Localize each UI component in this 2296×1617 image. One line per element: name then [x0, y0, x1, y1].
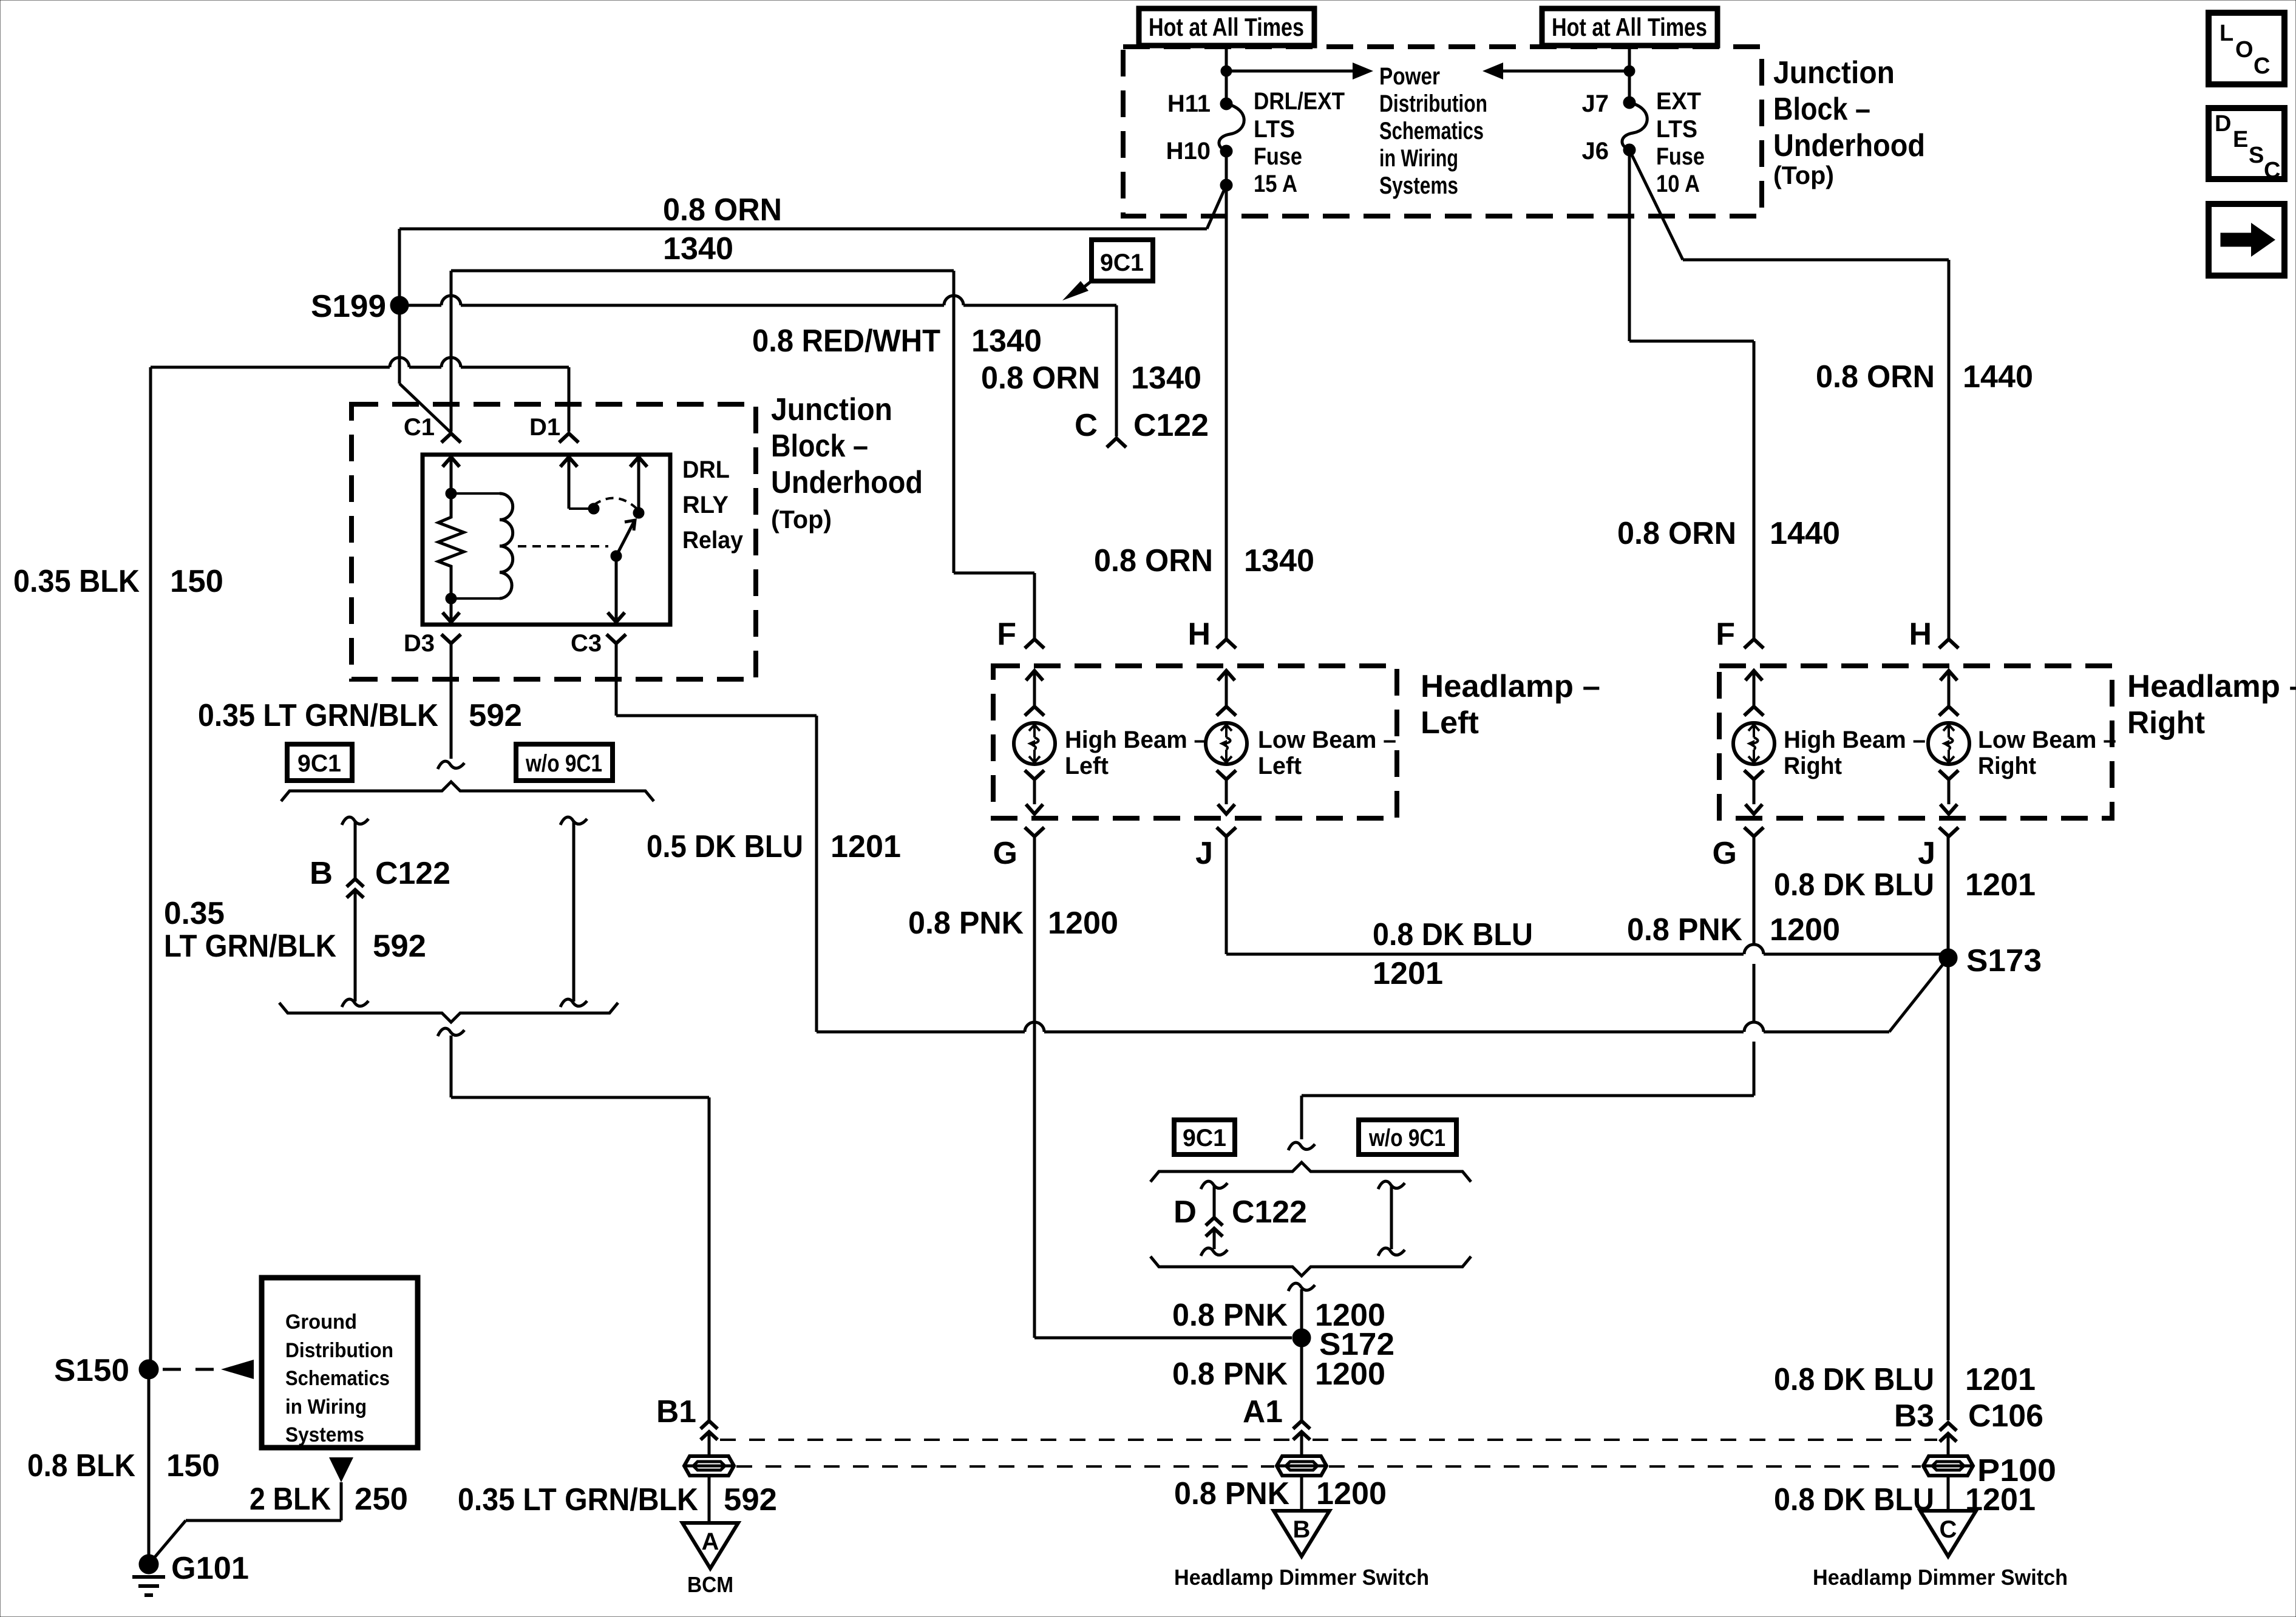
label: 0.8 DK BLU 1201 (B3) [1774, 1362, 2036, 1397]
svg-text:Systems: Systems [1379, 172, 1458, 199]
svg-text:Right: Right [1784, 753, 1842, 779]
svg-text:D1: D1 [529, 414, 560, 441]
label: 592 (D3) [469, 698, 522, 733]
headlamp-right dashed outline [1719, 666, 2112, 818]
pin label H11 [1167, 90, 1211, 117]
svg-text:0.35 BLK: 0.35 BLK [13, 564, 140, 599]
bulb outlet chevron J-left [1217, 770, 1236, 804]
svg-text:0.8 ORN: 0.8 ORN [981, 361, 1100, 396]
connector arrow into H-right [1940, 671, 1957, 705]
connector chevron above H-right [1939, 639, 1958, 648]
connector chevron above F-left [1025, 639, 1044, 648]
relay coil branch wires [451, 493, 500, 598]
variant branch left bracket with connector C122 D [1201, 1181, 1228, 1256]
bulb socket chevron H-right [1939, 707, 1958, 716]
svg-text:C122: C122 [1133, 408, 1209, 443]
svg-text:LTS: LTS [1656, 116, 1697, 143]
svg-text:B: B [1293, 1516, 1311, 1543]
wire: G-left down to S172 junction [1034, 836, 1292, 1338]
connector C122 pin C half-connector chevron [1107, 438, 1126, 447]
wire: left ground drop (0.35 BLK 150) [149, 367, 152, 1369]
label: 0.8 RED/WHT [752, 324, 940, 359]
pin label B1 [656, 1394, 696, 1429]
wire: C3 run to S173 with humps and diagonal [817, 958, 1948, 1032]
connector chevron below C3 [606, 634, 626, 643]
pass-through symbol at A1 [1277, 1456, 1326, 1476]
relay switch arm with arrowhead [616, 520, 635, 556]
label: C122 (top) [1133, 408, 1209, 443]
svg-text:H11: H11 [1167, 90, 1211, 117]
pin H10 dot [1220, 145, 1232, 157]
wire: J-left to S173 (0.8 DK BLU 1201) [1226, 836, 1948, 954]
node: arrow branch dot right [1624, 66, 1635, 76]
relay DRL RLY box [423, 455, 670, 625]
svg-text:592: 592 [469, 698, 522, 733]
reference arrow to Power Distribution text (left-pointing) [1483, 63, 1629, 80]
svg-text:C122: C122 [375, 856, 450, 891]
svg-text:Right: Right [1978, 753, 2036, 779]
svg-text:Hot at All Times: Hot at All Times [1552, 13, 1707, 41]
svg-text:Fuse: Fuse [1254, 143, 1302, 170]
svg-text:Headlamp Dimmer Switch: Headlamp Dimmer Switch [1813, 1565, 2068, 1590]
relay pin arrow C1 (coil+) [443, 457, 460, 493]
relay coil top node dot [446, 488, 457, 499]
label: G101 [171, 1551, 249, 1586]
wire: 0.8 ORN 1340 horizontal bus [399, 229, 1207, 305]
svg-text:H: H [1909, 617, 1932, 652]
connector chevron at C1 [441, 433, 461, 442]
svg-text:S: S [2249, 143, 2264, 168]
lamp High Beam - Right [1733, 723, 1775, 764]
svg-text:C1: C1 [404, 414, 435, 441]
connector arrow into F-right [1745, 671, 1762, 705]
pin label G (right) [1713, 836, 1737, 871]
splice S172 dot [1292, 1329, 1311, 1347]
callout box 9C1 with arrow [1062, 240, 1153, 300]
svg-text:C: C [2254, 53, 2270, 79]
callout box 9C1 (left group) [287, 744, 352, 781]
label: EXT LTS Fuse 10 A [1656, 88, 1705, 197]
label: 0.8 DK BLU 1201 (J-right) [1774, 867, 2036, 903]
connector arrow out J-right [1940, 804, 1957, 814]
splice S173 dot [1939, 949, 1957, 967]
label: BCM [687, 1572, 733, 1597]
connector chevron below G-left [1025, 827, 1044, 836]
connector chevron below J-left [1217, 827, 1236, 836]
bulb outlet chevron G-left [1025, 770, 1044, 804]
svg-text:0.8 PNK: 0.8 PNK [908, 906, 1024, 941]
wire: J6 down then right to high-beam-right feed [1629, 150, 1754, 638]
label: 0.8 PNK 1200 (above S172) [1172, 1298, 1385, 1333]
pin label J7 [1582, 90, 1609, 117]
svg-text:Left: Left [1258, 753, 1302, 779]
junction block underhood (relay) dashed outline [352, 404, 756, 679]
svg-text:C122: C122 [1232, 1195, 1307, 1230]
svg-text:592: 592 [724, 1482, 777, 1517]
label: Headlamp Dimmer Switch (right) [1813, 1565, 2068, 1590]
destination triangle C (dimmer switch) [1920, 1511, 1976, 1556]
variant branch left bracket with connector C122 B [342, 817, 369, 1007]
connector chevron above H-left [1217, 639, 1236, 648]
svg-text:B: B [310, 856, 333, 891]
svg-text:1200: 1200 [1048, 906, 1118, 941]
curl below lower brace (left group) [438, 1028, 464, 1036]
svg-text:J7: J7 [1582, 90, 1609, 117]
label: 0.8 ORN 1340 (C122 drop) [981, 361, 1201, 396]
svg-text:H: H [1187, 617, 1211, 652]
label: 0.35 LT GRN/BLK (D3) [198, 698, 438, 733]
connector B3 double chevron [1940, 1423, 1957, 1442]
svg-text:RLY: RLY [682, 492, 729, 518]
pin label J6 [1582, 138, 1609, 164]
dashed harness separator line 1 [720, 1439, 1937, 1441]
svg-text:Right: Right [2127, 705, 2205, 741]
pin label B3 [1894, 1398, 1934, 1434]
label: 0.8 BLK [27, 1448, 135, 1483]
pin label H (left) [1187, 617, 1211, 652]
label: 0.35 BLK [13, 564, 140, 599]
relay pin arrow B+ contact [630, 457, 647, 513]
svg-text:1440: 1440 [1770, 516, 1840, 551]
svg-text:Fuse: Fuse [1656, 143, 1705, 170]
svg-text:1200: 1200 [1770, 912, 1840, 947]
svg-text:0.8 DK BLU: 0.8 DK BLU [1373, 917, 1533, 952]
svg-text:G: G [1713, 836, 1737, 871]
svg-text:LT GRN/BLK: LT GRN/BLK [164, 929, 336, 964]
relay pin arrow D1 (switch in) [560, 457, 577, 509]
label: Headlamp - Right [2127, 669, 2296, 741]
variant brace upper (middle group) [1150, 1162, 1471, 1182]
pin label H10 [1166, 138, 1211, 164]
svg-text:in Wiring: in Wiring [285, 1395, 367, 1419]
wire: ground-side bus to relay D1 with humps [151, 358, 569, 432]
connector arrow out J-left [1218, 804, 1235, 814]
svg-text:G101: G101 [171, 1551, 249, 1586]
wire: S199 down to C1 diagonal [399, 305, 451, 433]
wire: fuse output down to headlamp-left H [1225, 185, 1228, 638]
svg-text:BCM: BCM [687, 1572, 733, 1597]
svg-text:1340: 1340 [1244, 543, 1314, 578]
svg-text:0.35 LT GRN/BLK: 0.35 LT GRN/BLK [458, 1482, 698, 1517]
label: 0.8 ORN 1440 (high beam right) [1617, 516, 1840, 551]
label: 2 BLK [250, 1482, 331, 1517]
svg-text:H10: H10 [1166, 138, 1211, 164]
wire: A1 to dimmer switch B [1300, 1432, 1303, 1511]
svg-text:High Beam –: High Beam – [1784, 727, 1926, 753]
svg-text:C: C [1075, 408, 1098, 443]
svg-text:0.8 DK BLU: 0.8 DK BLU [1774, 1482, 1934, 1517]
headlamp-left dashed outline [993, 666, 1397, 818]
variant branch right bracket (w/o 9C1) [560, 817, 587, 1007]
junction block underhood (top) dashed outline [1123, 47, 1762, 216]
connector arrow into H-left [1218, 671, 1235, 705]
label: 0.8 ORN 1440 (low beam right) [1816, 359, 2033, 395]
svg-text:1200: 1200 [1316, 1476, 1387, 1511]
svg-text:0.8 RED/WHT: 0.8 RED/WHT [752, 324, 940, 359]
curl on G-right riser end [1288, 1142, 1315, 1150]
svg-text:0.5 DK BLU: 0.5 DK BLU [647, 829, 803, 864]
svg-text:EXT: EXT [1656, 88, 1701, 115]
label: S173 [1966, 943, 2042, 978]
connector arrow out G-left [1026, 804, 1043, 814]
svg-text:C3: C3 [571, 630, 602, 657]
label: Headlamp Dimmer Switch (left) [1174, 1565, 1429, 1590]
connector chevron below J-right [1939, 827, 1958, 836]
svg-text:9C1: 9C1 [1100, 249, 1144, 276]
bulb socket chevron F-left [1025, 707, 1044, 716]
svg-text:Junction: Junction [1773, 55, 1895, 90]
svg-text:0.8 ORN: 0.8 ORN [1617, 516, 1736, 551]
label: Low Beam - Right [1978, 727, 2116, 779]
svg-text:Headlamp –: Headlamp – [2127, 669, 2296, 704]
label: 150 (lower) [166, 1448, 220, 1483]
wire: B1 to BCM triangle [708, 1432, 711, 1523]
svg-text:9C1: 9C1 [297, 750, 341, 777]
svg-text:Low Beam –: Low Beam – [1258, 727, 1396, 753]
label: 0.5 DK BLU [647, 829, 803, 864]
svg-text:250: 250 [355, 1482, 408, 1517]
pin J7 dot [1623, 97, 1635, 109]
pass-through symbol at B1 [684, 1456, 734, 1476]
relay coil windings [500, 493, 513, 598]
LOC reference icon box [2209, 13, 2284, 84]
wire: fuse output segment [1225, 151, 1228, 185]
variant brace lower (left group) [279, 1003, 618, 1022]
bulb outlet chevron G-right [1744, 770, 1764, 804]
svg-text:J: J [1195, 836, 1213, 871]
callout box w/o 9C1 (middle group) [1359, 1120, 1456, 1154]
pin label F (right) [1716, 617, 1735, 652]
pin label D1 [529, 414, 560, 441]
label: 0.8 PNK 1200 (A1) [1174, 1476, 1387, 1511]
callout box w/o 9C1 (left group) [516, 744, 613, 781]
wire: S150 to G101 [148, 1369, 151, 1561]
label: 250 [355, 1482, 408, 1517]
svg-text:150: 150 [170, 564, 223, 599]
svg-text:w/o 9C1: w/o 9C1 [525, 750, 602, 777]
label: 0.8 PNK 1200 (G-right) [1627, 912, 1840, 947]
svg-text:150: 150 [166, 1448, 220, 1483]
svg-text:in Wiring: in Wiring [1379, 145, 1458, 172]
label: C106 [1968, 1398, 2043, 1434]
connector chevron below G-right [1744, 827, 1764, 836]
next-page arrow icon box [2209, 204, 2284, 276]
svg-text:D: D [2215, 111, 2231, 137]
label: 0.8 ORN (bus) [663, 192, 782, 228]
label: Power Distribution Schematics in Wiring Systems [1379, 63, 1487, 199]
svg-text:F: F [997, 617, 1016, 652]
svg-text:0.8 ORN: 0.8 ORN [1094, 543, 1213, 578]
power label box: Hot at All Times (left) [1139, 8, 1314, 46]
svg-text:D: D [1173, 1195, 1197, 1230]
svg-text:Low Beam –: Low Beam – [1978, 727, 2116, 753]
label: S199 [311, 289, 386, 324]
svg-text:Relay: Relay [682, 527, 744, 554]
node: arrow branch dot left [1221, 66, 1232, 76]
connector A1 double chevron [1293, 1421, 1310, 1440]
svg-text:10 A: 10 A [1656, 171, 1700, 197]
wire: hot1 feed into junction block [1225, 43, 1228, 104]
ground symbol G101 [132, 1577, 165, 1595]
svg-text:Headlamp –: Headlamp – [1421, 669, 1600, 704]
svg-text:F: F [1716, 617, 1735, 652]
destination triangle A (BCM) [682, 1523, 738, 1568]
pin label C1 [404, 414, 435, 441]
svg-text:9C1: 9C1 [1183, 1125, 1226, 1151]
svg-text:0.8 DK BLU: 0.8 DK BLU [1774, 1362, 1934, 1397]
svg-text:15 A: 15 A [1254, 171, 1297, 197]
connector arrow into F-left [1026, 671, 1043, 705]
splice S199 dot [390, 296, 409, 314]
dashed reference line from S150 [163, 1360, 254, 1379]
label: S172 [1319, 1327, 1394, 1362]
svg-text:Hot at All Times: Hot at All Times [1149, 13, 1304, 41]
bulb outlet chevron J-right [1939, 770, 1958, 804]
pin label G (left) [993, 836, 1017, 871]
pin label J (left) [1195, 836, 1213, 871]
bulb socket chevron F-right [1744, 707, 1764, 716]
svg-text:0.35: 0.35 [164, 896, 225, 931]
label: 0.35 LT GRN/BLK (BCM) [458, 1482, 698, 1517]
svg-text:(Top): (Top) [1773, 161, 1834, 189]
relay switch contact dot (common upper) [633, 507, 644, 518]
svg-text:1201: 1201 [830, 829, 901, 864]
variant brace lower (middle group) [1150, 1256, 1471, 1276]
label: 0.8 ORN 1340 (low beam left feed) [1094, 543, 1314, 578]
svg-text:Systems: Systems [285, 1423, 364, 1446]
ground G101 dot [139, 1554, 158, 1574]
connector B1 double chevron [701, 1421, 718, 1440]
curl on D3 wire end [438, 761, 464, 769]
lamp Low Beam - Right [1928, 723, 1969, 764]
svg-text:O: O [2235, 37, 2254, 63]
label: C122 (left group) [375, 856, 450, 891]
label: High Beam - Right [1784, 727, 1926, 779]
label: 0.8 DK BLU 1201 (C) [1774, 1482, 2036, 1517]
pin J6 dot [1623, 144, 1635, 156]
label: D (pin of C122) [1173, 1195, 1197, 1230]
connector chevron above F-right [1744, 639, 1764, 648]
variant branch right bracket (middle) [1378, 1181, 1405, 1256]
relay switch contact dot (NO) [588, 503, 599, 514]
wire: S172 down to A1 [1300, 1338, 1303, 1420]
svg-text:0.8 PNK: 0.8 PNK [1627, 912, 1742, 947]
wire: B3 to dimmer switch C [1947, 1434, 1950, 1511]
connector chevron at D1 [559, 433, 579, 442]
wire: G-right down and across to D-C122 riser [1302, 836, 1754, 1139]
label: 0.8 PNK 1200 (below S172) [1172, 1357, 1385, 1392]
relay pin arrow C3 (switch out) [608, 556, 625, 622]
power label box: Hot at All Times (right) [1542, 8, 1717, 46]
relay pin arrow D3 (coil-) [443, 598, 460, 622]
node dot below H10 [1220, 179, 1232, 191]
svg-text:S150: S150 [54, 1353, 129, 1388]
reference triangle below box [329, 1457, 353, 1482]
svg-text:A: A [702, 1528, 719, 1555]
connector chevron below D3 [441, 634, 461, 643]
wire: hot2 feed into junction block [1628, 43, 1631, 103]
svg-text:Ground: Ground [285, 1310, 357, 1334]
pin label J (right) [1918, 836, 1935, 871]
resistor inside relay [438, 493, 464, 598]
svg-text:LTS: LTS [1254, 116, 1295, 143]
svg-text:L: L [2220, 21, 2233, 46]
svg-text:S173: S173 [1966, 943, 2042, 978]
svg-text:Left: Left [1065, 753, 1109, 779]
label: Headlamp - Left [1421, 669, 1600, 741]
DESC reference icon box [2209, 108, 2284, 183]
svg-text:Schematics: Schematics [1379, 118, 1484, 144]
svg-text:J6: J6 [1582, 138, 1609, 164]
wire: D3 drop to brace group [450, 643, 453, 759]
lamp Low Beam - Left [1206, 723, 1247, 764]
svg-text:0.8 BLK: 0.8 BLK [27, 1448, 135, 1483]
svg-text:1200: 1200 [1315, 1357, 1385, 1392]
svg-text:B1: B1 [656, 1394, 696, 1429]
lamp High Beam - Left [1014, 723, 1055, 764]
svg-text:High Beam –: High Beam – [1065, 727, 1207, 753]
svg-text:0.8 ORN: 0.8 ORN [663, 192, 782, 228]
svg-text:Left: Left [1421, 705, 1479, 741]
svg-text:Distribution: Distribution [1379, 90, 1487, 117]
pin label H (right) [1909, 617, 1932, 652]
svg-text:1340: 1340 [1131, 361, 1201, 396]
label: B (pin of C122) [310, 856, 333, 891]
label: High Beam - Left [1065, 727, 1207, 779]
svg-text:Block –: Block – [771, 429, 868, 464]
connector arrow out G-right [1745, 804, 1762, 814]
svg-text:Underhood: Underhood [771, 465, 923, 500]
wire: C3 to 0.5 DK BLU run [616, 643, 817, 1032]
relay switch pivot dot [611, 551, 622, 561]
label: Junction Block - Underhood (Top) at relay [771, 392, 923, 534]
svg-text:C: C [1940, 1516, 1957, 1543]
label: C122 (middle group) [1232, 1195, 1307, 1230]
svg-text:Distribution: Distribution [285, 1339, 393, 1362]
svg-text:A1: A1 [1243, 1394, 1283, 1429]
label: C (pin of C122) [1075, 408, 1098, 443]
svg-text:1340: 1340 [971, 324, 1042, 359]
svg-text:DRL: DRL [682, 456, 730, 483]
wire: S199 to connector C122-C with crossover humps [409, 296, 1116, 436]
wire: J-right down through S173 to B3 [1947, 836, 1950, 1420]
ground distribution schematics reference box [262, 1278, 418, 1448]
svg-text:B3: B3 [1894, 1398, 1934, 1434]
svg-text:(Top): (Top) [771, 505, 832, 534]
svg-text:0.8 PNK: 0.8 PNK [1172, 1298, 1288, 1333]
svg-text:1440: 1440 [1963, 359, 2033, 395]
label: 1201 (0.5 dk blu) [830, 829, 901, 864]
svg-text:0.8 DK BLU: 0.8 DK BLU [1774, 867, 1934, 903]
wire: brace output to BCM B1 riser [451, 1036, 709, 1420]
label: 1340 (red/wht) [971, 324, 1042, 359]
svg-text:Headlamp Dimmer Switch: Headlamp Dimmer Switch [1174, 1565, 1429, 1590]
svg-text:Block –: Block – [1773, 92, 1870, 127]
svg-text:0.8 PNK: 0.8 PNK [1174, 1476, 1289, 1511]
label: 592 (BCM) [724, 1482, 777, 1517]
relay actuation dashed link [518, 545, 608, 547]
svg-text:592: 592 [373, 929, 426, 964]
svg-text:1201: 1201 [1965, 1362, 2036, 1397]
pass-through symbol P100 [1923, 1456, 1973, 1476]
label: DRL RLY Relay [682, 456, 744, 554]
relay coil bottom node dot [446, 593, 457, 604]
label: DRL/EXT LTS Fuse 15 A [1254, 88, 1345, 197]
svg-text:J: J [1918, 836, 1935, 871]
wire: reference drop to G101 [152, 1482, 341, 1560]
svg-text:C106: C106 [1968, 1398, 2043, 1434]
destination triangle B (dimmer switch) [1274, 1511, 1330, 1556]
